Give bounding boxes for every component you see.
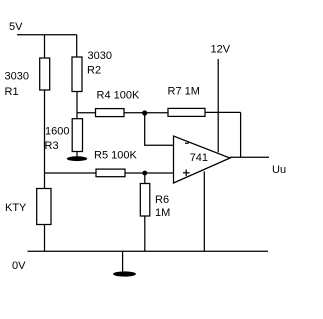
- resistor R1: [40, 58, 50, 90]
- U1 inverting pin mark: [185, 142, 189, 144]
- sensor KTY: [37, 189, 51, 225]
- resistor R7: [168, 108, 205, 116]
- svg-text:741: 741: [190, 152, 208, 164]
- ground symbol: [113, 271, 136, 276]
- svg-text:R3: R3: [45, 140, 59, 152]
- wire op-amp V- pin to 0V rail: [203, 171, 205, 251]
- svg-text:R4 100K: R4 100K: [97, 90, 140, 102]
- U1 non-inverting pin mark: [183, 170, 190, 177]
- resistor R4: [96, 109, 125, 117]
- svg-text:Uu: Uu: [272, 164, 286, 176]
- wire rail to R1: [44, 35, 46, 58]
- svg-text:12V: 12V: [211, 44, 231, 56]
- svg-text:0V: 0V: [12, 260, 26, 272]
- wire junction to R6: [144, 173, 146, 184]
- svg-text:1600: 1600: [45, 126, 69, 138]
- wire 0V rail: [28, 250, 269, 252]
- wire R6 to 0V rail: [144, 216, 146, 251]
- svg-text:1M: 1M: [155, 207, 170, 219]
- resistor R6: [140, 184, 150, 217]
- wire R7 to feedback corner: [205, 111, 241, 113]
- wire output: [230, 156, 269, 158]
- resistor R2: [72, 57, 82, 92]
- wire 5V rail: [17, 34, 77, 36]
- svg-text:5V: 5V: [9, 21, 23, 33]
- resistor R5: [96, 169, 125, 177]
- svg-text:R2: R2: [87, 65, 101, 77]
- op-amp U1 741: [174, 136, 231, 183]
- wire R4 to R7: [124, 112, 168, 114]
- wire KTY to 0V rail: [44, 225, 46, 252]
- svg-text:3030: 3030: [88, 50, 112, 62]
- wire bridge tap to R5: [45, 172, 97, 174]
- wire feedback vertical: [240, 112, 242, 157]
- resistor R3: [72, 119, 82, 152]
- wire R5 to non-inverting input: [125, 172, 174, 174]
- wire junction to inverting input: [145, 113, 174, 145]
- wire rail to R2: [76, 35, 78, 57]
- svg-text:R5 100K: R5 100K: [94, 150, 137, 162]
- svg-text:R6: R6: [155, 194, 169, 206]
- svg-text:R7 1M: R7 1M: [168, 86, 200, 98]
- svg-text:KTY: KTY: [5, 202, 27, 214]
- svg-text:3030: 3030: [5, 71, 29, 83]
- ground under R3: [67, 156, 87, 161]
- wire bridge node to R4: [77, 112, 96, 114]
- node B junction: [142, 171, 147, 176]
- node A junction: [142, 110, 147, 115]
- wire R2 to R3: [76, 92, 78, 119]
- wire R1 to KTY: [44, 90, 46, 189]
- wire 0V rail to ground: [122, 251, 124, 272]
- wire 12V supply to op-amp: [217, 59, 219, 152]
- svg-text:R1: R1: [5, 86, 19, 98]
- wire R3 to ground blob: [76, 152, 78, 157]
